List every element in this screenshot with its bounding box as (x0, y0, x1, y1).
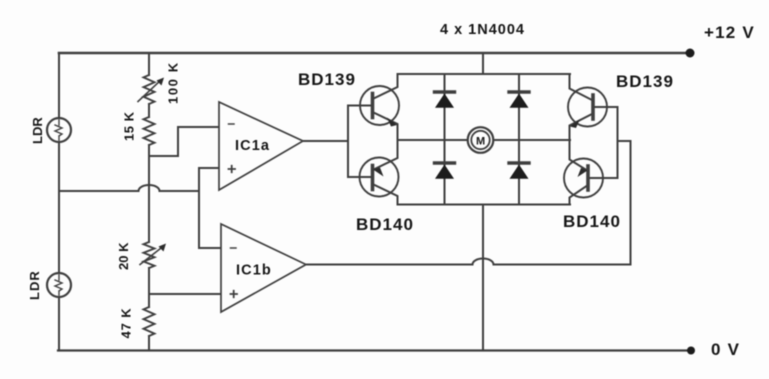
wire node bar (198, 168, 200, 248)
wire IC1b output (hop over bridge stub) (306, 259, 631, 265)
svg-text:BD140: BD140 (563, 212, 621, 231)
diode D1 (1N4004 top-left) (435, 90, 455, 93)
wire left branch vertical (58, 53, 60, 351)
diode D2 (1N4004 top-right) (509, 90, 529, 93)
bridge top edge (398, 73, 571, 75)
LDR R2 (47, 273, 71, 297)
LDR R1 (47, 118, 71, 142)
svg-text:IC1b: IC1b (236, 263, 272, 279)
transistor Q4 BD140 (right bottom) (564, 159, 603, 198)
svg-text:BD139: BD139 (616, 72, 674, 91)
wire IC1b inverting input (199, 247, 221, 249)
trimmer P1 100K (144, 75, 155, 104)
wire IC1a non-inverting input (199, 167, 219, 169)
bridge bottom edge (398, 204, 571, 206)
wire right drive vertical (618, 141, 631, 265)
resistor R3 15K (144, 117, 155, 145)
resistor R4 47K (144, 307, 155, 336)
diode D3 (1N4004 bottom-left) (435, 161, 455, 164)
wire 0V bottom rail (58, 349, 691, 351)
svg-text:20 K: 20 K (116, 242, 131, 270)
transistor Q3 BD139 (right top) (568, 88, 607, 127)
wire top supply stub (482, 53, 484, 74)
node 0V terminal dot (687, 347, 695, 355)
wire +12V top rail (59, 52, 690, 55)
wire right base bar (617, 107, 619, 178)
wire motor mid line (398, 139, 571, 141)
svg-text:4 x 1N4004: 4 x 1N4004 (440, 22, 525, 38)
node +12V terminal dot (686, 49, 695, 58)
op-amp IC1a (219, 102, 303, 190)
svg-text:BD139: BD139 (298, 70, 356, 89)
motor M1 (468, 127, 494, 153)
svg-text:15 K: 15 K (122, 111, 137, 141)
op-amp IC1b (221, 224, 306, 312)
svg-text:+12 V: +12 V (704, 23, 755, 42)
transistor Q1 BD139 (left top) (360, 86, 399, 125)
svg-text:LDR: LDR (30, 117, 45, 144)
trimmer P2 20K (144, 242, 155, 268)
wire IC1a output (303, 140, 348, 142)
svg-text:LDR: LDR (27, 270, 42, 300)
svg-text:47 K: 47 K (119, 307, 134, 338)
svg-text:M: M (476, 136, 485, 148)
svg-text:IC1a: IC1a (235, 138, 270, 154)
wire IC1b non-inverting input (149, 293, 221, 295)
diode column right (518, 74, 520, 205)
svg-text:100 K: 100 K (166, 61, 181, 104)
wire left base bar (347, 106, 349, 178)
wire divider branch vertical (148, 53, 150, 351)
wire IC1a inverting input (149, 127, 219, 156)
transistor Q2 BD140 (left bottom) (360, 158, 399, 197)
wire bottom stub (482, 205, 484, 351)
diode column left (444, 74, 446, 205)
wire LDR junction to node bar (with hop over divider) (59, 185, 199, 191)
svg-text:BD140: BD140 (356, 215, 414, 234)
svg-text:0 V: 0 V (711, 340, 740, 359)
diode D4 (1N4004 bottom-right) (509, 161, 529, 164)
